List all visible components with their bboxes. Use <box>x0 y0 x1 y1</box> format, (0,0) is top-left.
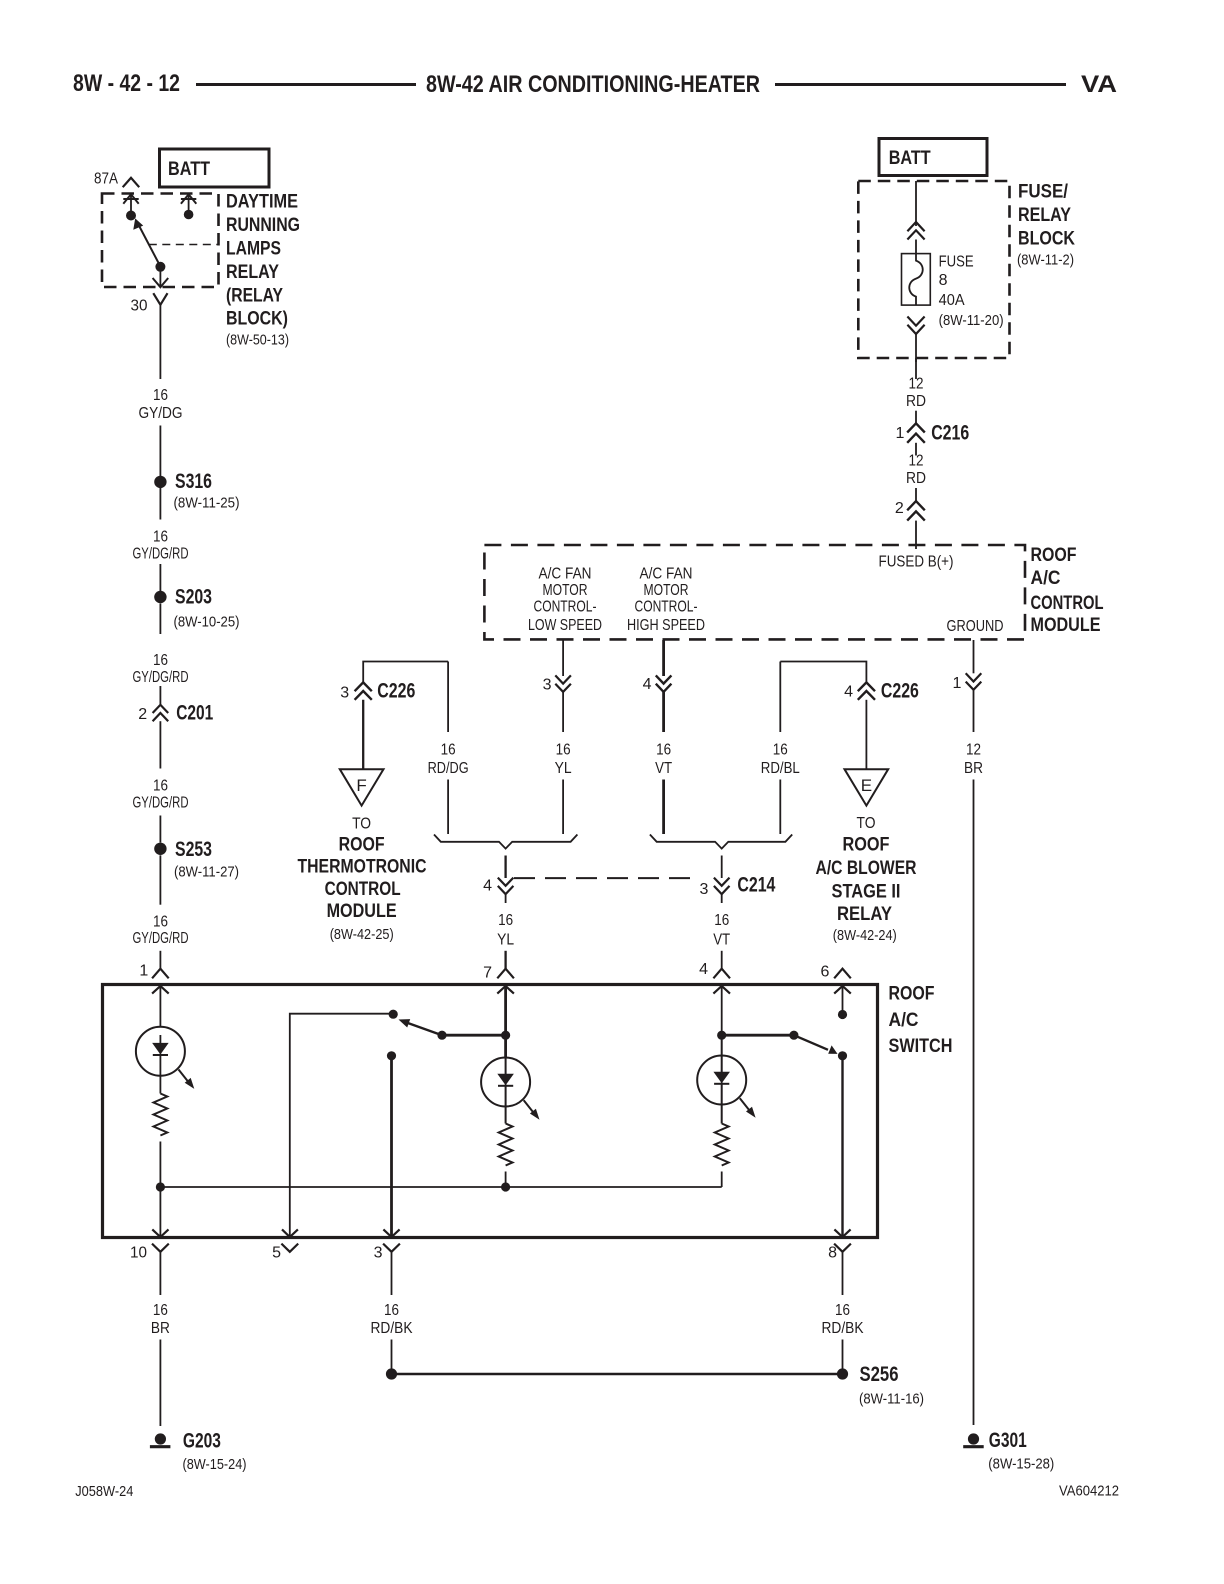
svg-text:CONTROL-: CONTROL- <box>534 599 597 616</box>
bundled wire down to C214 pin 4 <box>504 856 506 879</box>
svg-text:(RELAY: (RELAY <box>226 284 283 306</box>
C214 dashed connector line <box>514 877 697 879</box>
wire jog to C226 right <box>780 662 866 684</box>
splice S256 <box>837 1362 924 1408</box>
svg-text:FUSED B(+): FUSED B(+) <box>879 554 954 571</box>
svg-text:6: 6 <box>820 964 829 981</box>
wire pin4 down heavy <box>662 692 665 732</box>
svg-text:CONTROL: CONTROL <box>1031 592 1104 614</box>
svg-text:12: 12 <box>909 376 924 393</box>
footer sheet code right <box>1059 1483 1119 1500</box>
wire pin 8 down with exit arrow (heavy) <box>834 1056 850 1237</box>
switch arm junction dot pin 7 <box>501 1031 510 1040</box>
header rule right <box>775 83 1066 86</box>
resistor pin 7 <box>499 1124 513 1166</box>
relay terminal 87A (arrow with bar and stub) <box>123 194 138 215</box>
wire label 16 RD/BL <box>761 742 800 777</box>
relay terminal 30 arrow to box edge <box>153 267 169 287</box>
connector C226 right (double chevron up) <box>844 679 919 703</box>
wire pin 4 to LED <box>721 1035 723 1055</box>
wire label 16 RD/DG <box>428 742 469 777</box>
svg-text:GY/DG/RD: GY/DG/RD <box>133 795 189 812</box>
pin 6 contact dot <box>838 1010 847 1019</box>
svg-text:C201: C201 <box>176 701 213 725</box>
relay coil divider dashed line <box>149 244 219 246</box>
fuse label FUSE 8 40A (8W-11-20) <box>939 254 1004 329</box>
daytime running lamps relay dashed box <box>102 194 219 288</box>
module text GROUND <box>947 618 1004 635</box>
svg-text:RD/BK: RD/BK <box>822 1320 864 1337</box>
wire C226 to triangle E <box>865 700 867 769</box>
wire fuse to block edge <box>915 334 917 362</box>
pin 6 entry arrow and stub <box>834 986 851 1015</box>
destination label TO ROOF A/C BLOWER STAGE II RELAY <box>816 815 917 944</box>
wire down to switch pin 1 <box>159 951 161 969</box>
switch arm right with arrowhead (points to pin 8 contact) <box>794 1035 838 1054</box>
destination label TO ROOF THERMOTRONIC CONTROL MODULE <box>298 816 427 943</box>
ground G203 <box>150 1428 247 1473</box>
wire label 16 RD/BK <box>822 1302 864 1337</box>
svg-text:16: 16 <box>835 1302 850 1319</box>
switch arm wire pin 4 (heavy) <box>722 1034 794 1037</box>
svg-text:16: 16 <box>498 912 513 929</box>
wire label 16 VT <box>655 742 672 777</box>
LED diode pin 7 <box>498 1058 513 1107</box>
svg-text:16: 16 <box>153 387 168 404</box>
svg-text:A/C BLOWER: A/C BLOWER <box>816 857 917 879</box>
wire down to S203 <box>159 564 161 591</box>
wire RD/BL into bundle <box>779 780 781 835</box>
svg-text:C226: C226 <box>377 679 415 703</box>
switch pin 10 connector half below box <box>130 1244 169 1262</box>
svg-text:A/C FAN: A/C FAN <box>539 565 592 582</box>
wire pin 10 down <box>159 1252 161 1295</box>
svg-text:5: 5 <box>272 1245 281 1262</box>
splice S253 <box>154 837 239 881</box>
svg-text:(8W-15-24): (8W-15-24) <box>183 1456 247 1473</box>
fuse/relay block dashed box <box>858 181 1009 358</box>
pin 3 contact wire (heavy) <box>383 1056 399 1237</box>
wire down to G203 <box>159 1340 161 1427</box>
wire label 12 RD <box>906 376 926 411</box>
svg-text:1: 1 <box>895 425 904 442</box>
LED lamp circle pin 7 <box>481 1058 530 1107</box>
svg-text:1: 1 <box>139 963 148 980</box>
svg-text:FUSE/: FUSE/ <box>1018 181 1068 203</box>
wire VT to switch pin 4 <box>721 951 723 969</box>
wire chevron to fuse <box>915 240 917 254</box>
wire below S253 <box>159 855 161 904</box>
svg-text:4: 4 <box>483 878 492 895</box>
svg-text:16: 16 <box>153 914 168 931</box>
module pin 4 wire (high speed, heavy) <box>662 640 665 676</box>
wire RD/BL vertical <box>779 662 781 733</box>
wire YL into bundle <box>562 780 564 835</box>
LED diode pin 1 <box>153 1035 168 1076</box>
module text A/C FAN MOTOR CONTROL-HIGH SPEED <box>627 565 705 634</box>
wire down to C216 <box>915 411 917 424</box>
bundled wire down to C214 pin 3 <box>721 856 723 879</box>
wire below S203 <box>159 604 161 635</box>
svg-text:(8W-11-16): (8W-11-16) <box>859 1391 924 1408</box>
svg-text:(8W-10-25): (8W-10-25) <box>174 614 240 631</box>
wire RD/DG into bundle <box>447 780 449 835</box>
svg-text:16: 16 <box>556 742 571 759</box>
svg-text:RD/DG: RD/DG <box>428 760 469 777</box>
switch pin 5 connector half below box <box>272 1244 298 1262</box>
svg-text:TO: TO <box>857 815 876 832</box>
svg-text:ROOF: ROOF <box>889 982 935 1004</box>
svg-text:16: 16 <box>656 742 671 759</box>
pin 30 label <box>131 298 148 315</box>
fuse/relay block label <box>1017 181 1075 269</box>
svg-text:16: 16 <box>153 652 168 669</box>
wire label 16 YL <box>555 742 572 777</box>
wire pin 8 down <box>842 1252 844 1295</box>
module label ROOF A/C CONTROL MODULE <box>1031 544 1104 636</box>
wire resistor to bus pin 7 <box>505 1172 507 1188</box>
svg-text:1: 1 <box>952 675 961 692</box>
svg-text:S203: S203 <box>175 585 212 609</box>
svg-text:HIGH SPEED: HIGH SPEED <box>627 617 705 634</box>
svg-text:8W-42 AIR CONDITIONING-HEATER: 8W-42 AIR CONDITIONING-HEATER <box>426 71 760 98</box>
svg-text:MOTOR: MOTOR <box>644 582 689 599</box>
resistor pin 4 <box>715 1124 729 1166</box>
connector C214 pin 3 chevrons (down) <box>699 873 775 899</box>
ground wire BR long run to G301 <box>973 780 975 1426</box>
svg-text:RD/BL: RD/BL <box>761 760 800 777</box>
svg-text:4: 4 <box>844 684 853 701</box>
wire below S316 <box>159 488 161 520</box>
switch label ROOF A/C SWITCH <box>889 982 953 1057</box>
svg-text:(8W-15-28): (8W-15-28) <box>988 1456 1054 1473</box>
BATT box (relay block feed) <box>160 149 270 187</box>
wire to resistor pin 7 <box>505 1107 507 1124</box>
svg-text:10: 10 <box>130 1245 147 1262</box>
svg-text:RD/BK: RD/BK <box>371 1320 413 1337</box>
switch junction dot pin 4 <box>717 1031 726 1040</box>
connector C226 left (double chevron up) <box>340 679 415 703</box>
svg-text:STAGE II: STAGE II <box>832 881 901 903</box>
bundle joint right (VT + RD/BL) <box>650 835 792 849</box>
lamp return bus wire <box>160 1186 721 1188</box>
wire down to S316 <box>159 426 161 477</box>
ground G301 <box>963 1428 1054 1473</box>
svg-text:7: 7 <box>483 965 492 982</box>
wire label 16 VT (below C214) <box>713 894 730 948</box>
switch arm pivot dot left <box>437 1031 446 1040</box>
LED light arrow pin 7 <box>524 1100 540 1119</box>
svg-text:RD: RD <box>906 470 926 487</box>
wire relay pin30 down <box>159 305 161 379</box>
wire to resistor pin 4 <box>721 1105 723 1124</box>
svg-text:(8W-42-24): (8W-42-24) <box>833 927 897 944</box>
pin 7 entry arrow inside box <box>497 986 514 1035</box>
LED lamp circle pin 1 <box>136 1027 185 1076</box>
svg-text:G203: G203 <box>183 1428 221 1452</box>
svg-text:16: 16 <box>153 778 168 795</box>
wire ground pin down <box>973 640 975 673</box>
wire label 16 BR <box>151 1302 170 1337</box>
svg-text:(8W-11-25): (8W-11-25) <box>174 495 240 512</box>
wire label 16 GY/DG/RD <box>133 914 189 947</box>
wire down to pin 2 chevrons <box>915 488 917 501</box>
wire down to S256 <box>842 1340 844 1370</box>
svg-text:A/C: A/C <box>1031 567 1061 589</box>
svg-text:LAMPS: LAMPS <box>226 238 281 260</box>
wire resistor to bus pin 4 <box>721 1172 723 1188</box>
svg-text:MODULE: MODULE <box>1031 614 1101 636</box>
pin 3 contact dot <box>387 1051 396 1060</box>
svg-text:G301: G301 <box>989 1428 1027 1452</box>
svg-text:VA: VA <box>1081 71 1117 98</box>
svg-text:3: 3 <box>374 1245 383 1262</box>
svg-text:16: 16 <box>384 1302 399 1319</box>
svg-text:RUNNING: RUNNING <box>226 214 300 236</box>
relay movable arm with arrowhead <box>133 218 160 266</box>
wire pin3 down <box>562 692 564 732</box>
svg-text:FUSE: FUSE <box>939 254 974 271</box>
fuse output chevrons (down) <box>907 317 924 335</box>
relay terminal 2 (arrow with bar and stub) <box>181 194 196 214</box>
svg-text:LOW SPEED: LOW SPEED <box>528 617 602 634</box>
svg-text:2: 2 <box>895 500 904 517</box>
svg-text:VT: VT <box>655 760 672 777</box>
svg-text:DAYTIME: DAYTIME <box>226 191 298 213</box>
module pin 3 wire (low speed) <box>562 640 564 676</box>
junction dot pin 1 / bus <box>156 1182 165 1191</box>
relay contact dot 87A <box>126 211 136 221</box>
BATT box (fuse block feed) <box>879 139 987 176</box>
switch pin 3 connector half below box <box>374 1244 400 1262</box>
svg-text:SWITCH: SWITCH <box>889 1035 953 1057</box>
module ground pin 1 chevrons (down) <box>952 673 981 692</box>
wire down to S253 <box>159 816 161 843</box>
svg-text:30: 30 <box>131 298 148 315</box>
svg-text:A/C: A/C <box>889 1009 919 1031</box>
svg-text:GROUND: GROUND <box>947 618 1004 635</box>
connector C214 pin 4 chevrons (down) <box>483 878 513 895</box>
wire resistor to bus pin 1 <box>159 1142 161 1188</box>
module pin 3 chevrons (down) <box>543 675 571 693</box>
wire down to C201 <box>159 686 161 705</box>
wire jog to C226 left <box>363 662 448 684</box>
fuse 8 40A element <box>902 254 931 306</box>
splice wire S256 <box>392 1373 843 1375</box>
svg-text:C216: C216 <box>931 421 969 445</box>
svg-text:J058W-24: J058W-24 <box>75 1483 133 1500</box>
svg-text:E: E <box>861 776 872 795</box>
svg-text:RELAY: RELAY <box>1018 204 1071 226</box>
wire to resistor pin 1 <box>159 1076 161 1094</box>
LED light arrow pin 1 <box>179 1070 195 1089</box>
wire from BATT into fuse <box>915 181 917 226</box>
svg-text:3: 3 <box>543 677 552 694</box>
svg-text:(8W-11-27): (8W-11-27) <box>174 864 239 881</box>
svg-text:S256: S256 <box>860 1362 899 1386</box>
svg-text:(8W-50-13): (8W-50-13) <box>226 332 289 349</box>
wire label 16 YL (below C214) <box>497 894 514 948</box>
switch pin 7 connector half <box>483 965 514 982</box>
svg-text:4: 4 <box>699 961 708 978</box>
pin 1 entry arrow inside box <box>152 986 169 1027</box>
svg-text:RELAY: RELAY <box>226 261 279 283</box>
relay arm pivot dot <box>155 262 165 272</box>
resistor pin 1 <box>153 1094 167 1136</box>
pin 5 contact wire (thin) <box>282 1014 393 1237</box>
svg-text:VT: VT <box>713 931 730 948</box>
svg-text:TO: TO <box>352 816 371 833</box>
module text A/C FAN MOTOR CONTROL-LOW SPEED <box>528 565 602 634</box>
svg-text:12: 12 <box>966 742 981 759</box>
wire RD/DG vertical <box>447 662 449 733</box>
svg-text:C226: C226 <box>881 679 919 703</box>
page header title center <box>426 71 760 98</box>
switch pin 4 connector half <box>699 961 730 978</box>
wire label 16 GY/DG <box>139 387 183 422</box>
svg-text:(8W-42-25): (8W-42-25) <box>330 926 394 943</box>
wire label 16 GY/DG/RD <box>133 529 189 563</box>
wire label 12 RD <box>906 453 926 488</box>
svg-text:12: 12 <box>909 453 924 470</box>
svg-text:16: 16 <box>773 742 788 759</box>
wire VT into bundle heavy <box>662 780 665 835</box>
switch arm left with arrowhead (points to pin 5 contact) <box>399 1019 443 1035</box>
svg-text:GY/DG: GY/DG <box>139 405 183 422</box>
roof a/c control module dashed box <box>484 545 1025 639</box>
svg-text:3: 3 <box>699 881 708 898</box>
off-page triangle F <box>340 769 384 805</box>
switch arm wire pin 7 (heavy) <box>442 1034 506 1037</box>
wire pin 3 down <box>391 1252 393 1295</box>
LED diode pin 4 <box>714 1056 729 1105</box>
pin 5 contact dot <box>389 1010 398 1019</box>
roof a/c switch box <box>103 985 878 1238</box>
LED light arrow pin 4 <box>740 1098 756 1117</box>
page header title left <box>73 70 180 97</box>
wire down to S256 splice line <box>391 1340 393 1370</box>
svg-text:3: 3 <box>340 685 349 702</box>
splice S316 <box>154 469 239 512</box>
svg-text:ROOF: ROOF <box>1031 544 1077 566</box>
svg-text:ROOF: ROOF <box>339 833 385 855</box>
svg-text:A/C FAN: A/C FAN <box>640 565 693 582</box>
svg-text:8: 8 <box>828 1245 837 1262</box>
wire below C201 <box>159 721 161 768</box>
svg-text:BLOCK: BLOCK <box>1018 227 1075 249</box>
switch arm pivot dot right <box>789 1031 798 1040</box>
switch pin 8 connector half below box <box>828 1244 851 1262</box>
svg-text:CONTROL: CONTROL <box>325 878 401 900</box>
splice dot left S256 <box>386 1368 397 1379</box>
svg-text:THERMOTRONIC: THERMOTRONIC <box>298 855 427 877</box>
svg-text:40A: 40A <box>939 292 965 309</box>
svg-text:BR: BR <box>964 760 983 777</box>
wire label 16 GY/DG/RD <box>133 778 189 812</box>
wire below fuse block <box>915 358 917 379</box>
wire label 16 RD/BK <box>371 1302 413 1337</box>
svg-text:8: 8 <box>939 272 948 289</box>
svg-text:4: 4 <box>643 676 652 693</box>
wire label 12 BR <box>964 742 983 777</box>
relay contact dot upper right <box>184 210 194 220</box>
svg-text:2: 2 <box>138 706 147 723</box>
footer sheet code left <box>75 1483 133 1500</box>
svg-text:BATT: BATT <box>889 147 931 169</box>
connector C216 (double chevron up) <box>895 421 969 445</box>
svg-text:S253: S253 <box>175 837 212 861</box>
module text FUSED B(+) <box>879 554 954 571</box>
pin 30 connector half below relay box <box>153 293 167 305</box>
pin 87A connector half (caret above relay box) <box>123 178 140 187</box>
wire pin 7 to LED (heavy) <box>504 1035 507 1058</box>
svg-text:(8W-11-2): (8W-11-2) <box>1017 252 1074 269</box>
svg-text:YL: YL <box>497 931 514 948</box>
svg-text:RELAY: RELAY <box>837 903 892 925</box>
svg-text:BLOCK): BLOCK) <box>226 308 288 330</box>
pin 87A label <box>94 171 118 188</box>
wire pin 10 down with exit arrow <box>152 1187 168 1237</box>
junction dot pin 7 / bus <box>501 1182 510 1191</box>
wire pin2 to module box <box>915 521 917 549</box>
svg-text:MOTOR: MOTOR <box>543 582 588 599</box>
svg-text:8W - 42 - 12: 8W - 42 - 12 <box>73 70 180 97</box>
svg-text:F: F <box>356 776 366 795</box>
wire below C216 <box>915 443 917 456</box>
svg-text:GY/DG/RD: GY/DG/RD <box>133 546 189 563</box>
pin 8 contact dot <box>838 1051 847 1060</box>
switch pin 1 connector half <box>139 963 168 980</box>
svg-text:(8W-11-20): (8W-11-20) <box>939 312 1004 329</box>
svg-text:MODULE: MODULE <box>327 900 397 922</box>
svg-text:BATT: BATT <box>168 158 210 180</box>
connector C201 (double chevron) <box>138 701 213 725</box>
svg-text:16: 16 <box>441 742 456 759</box>
module pin 2 chevrons (up) <box>895 500 925 521</box>
splice S203 <box>154 585 239 631</box>
svg-text:GY/DG/RD: GY/DG/RD <box>133 669 189 686</box>
wire label 16 GY/DG/RD <box>133 652 189 686</box>
svg-text:87A: 87A <box>94 171 118 188</box>
wire C226 to triangle F heavy <box>362 700 364 769</box>
off-page triangle E <box>845 769 889 805</box>
LED lamp circle pin 4 <box>697 1056 746 1105</box>
pin 4 entry arrow inside box <box>713 986 730 1035</box>
module pin 4 chevrons (down) <box>643 675 672 693</box>
fuse feed chevrons <box>907 222 924 240</box>
header rule left <box>196 83 416 86</box>
svg-text:16: 16 <box>153 529 168 546</box>
svg-text:YL: YL <box>555 760 572 777</box>
svg-text:16: 16 <box>714 912 729 929</box>
svg-text:16: 16 <box>153 1302 168 1319</box>
bundle joint left (RD/DG + YL) <box>434 835 577 849</box>
svg-text:RD: RD <box>906 393 926 410</box>
svg-text:S316: S316 <box>175 469 212 493</box>
svg-text:ROOF: ROOF <box>843 833 890 855</box>
svg-text:C214: C214 <box>737 873 775 897</box>
page header title right VA <box>1081 71 1117 98</box>
svg-text:GY/DG/RD: GY/DG/RD <box>133 930 189 947</box>
svg-text:VA604212: VA604212 <box>1059 1483 1119 1500</box>
svg-text:CONTROL-: CONTROL- <box>635 599 698 616</box>
switch pin 6 connector half (no wire) <box>820 964 850 981</box>
svg-text:BR: BR <box>151 1320 170 1337</box>
relay block label DAYTIME RUNNING LAMPS RELAY (RELAY BLOCK) (8W-50-13) <box>226 191 300 349</box>
wire YL to switch pin 7 <box>504 951 506 969</box>
